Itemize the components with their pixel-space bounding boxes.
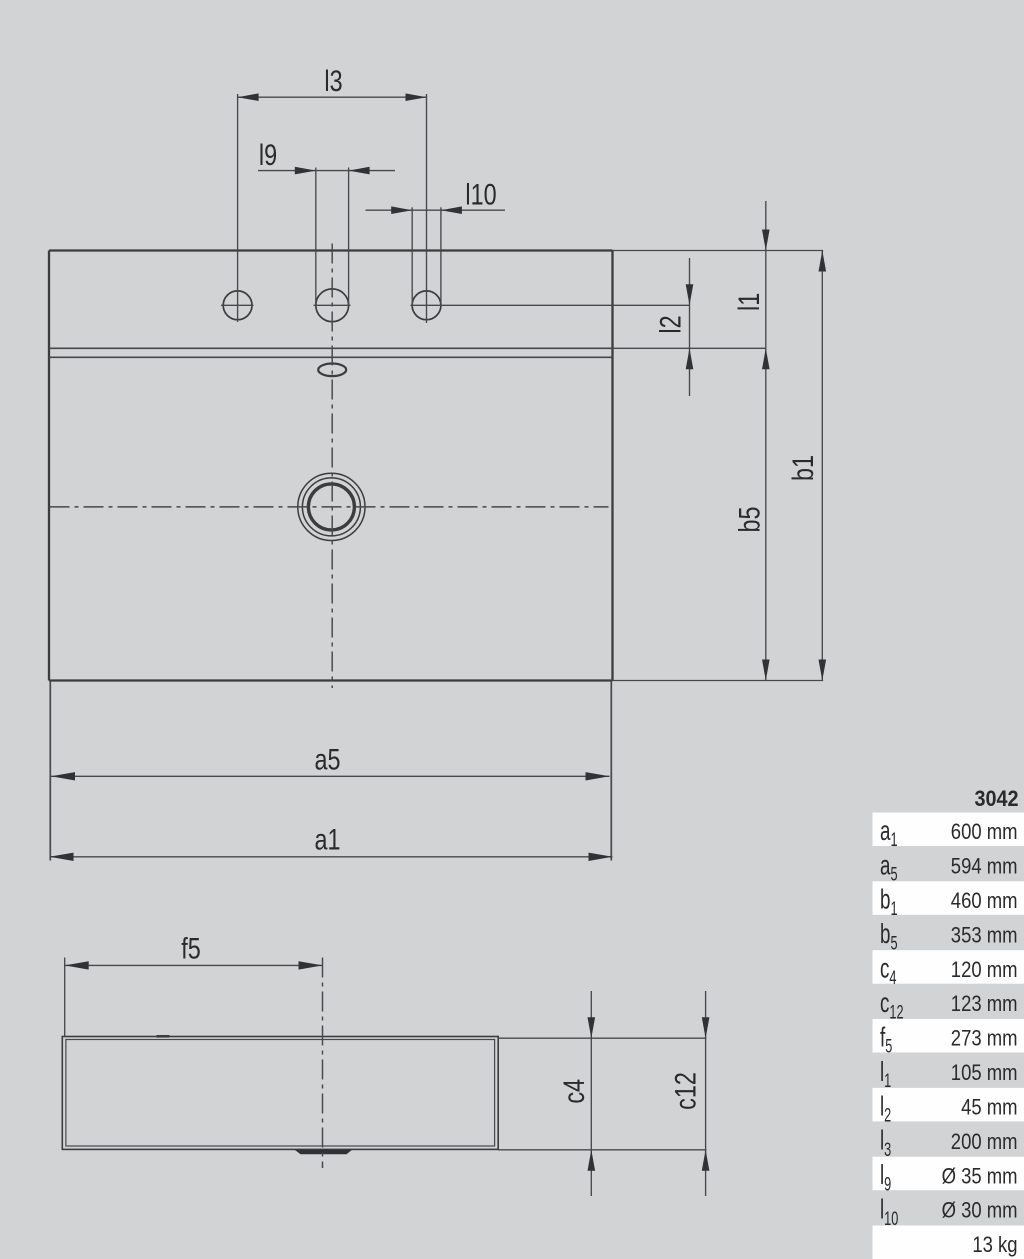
side view inner wall line xyxy=(66,1040,495,1147)
svg-text:c4: c4 xyxy=(557,1079,590,1104)
dimension l9 extension lines xyxy=(316,168,349,306)
overflow mark on side view xyxy=(157,1035,170,1038)
svg-text:123 mm: 123 mm xyxy=(951,993,1018,1017)
svg-text:a5: a5 xyxy=(314,743,340,776)
table row b1 460 mm xyxy=(873,881,1024,919)
side view outer outline xyxy=(62,1037,498,1150)
svg-text:b5: b5 xyxy=(733,506,766,532)
svg-text:b1: b1 xyxy=(786,455,819,481)
svg-text:l9: l9 xyxy=(259,138,277,171)
ledge extension line right xyxy=(613,347,766,349)
svg-text:l1: l1 xyxy=(732,293,765,311)
svg-text:200 mm: 200 mm xyxy=(951,1130,1018,1154)
table row c12 123 mm xyxy=(880,987,1018,1023)
dimension b1 line xyxy=(819,251,827,681)
vertical centerline xyxy=(331,244,333,689)
tap hole left xyxy=(221,291,254,320)
svg-text:273 mm: 273 mm xyxy=(951,1027,1018,1051)
svg-text:120 mm: 120 mm xyxy=(951,958,1018,982)
tap ledge lines xyxy=(49,348,613,357)
drain trap below side view xyxy=(295,1150,353,1155)
svg-text:a1: a1 xyxy=(314,823,340,856)
table row a5 594 mm xyxy=(880,850,1018,886)
table row l10 Ø 30 mm xyxy=(880,1194,1018,1230)
tap hole middle xyxy=(314,289,351,322)
washbasin top view outline xyxy=(49,251,613,681)
svg-text:594 mm: 594 mm xyxy=(951,855,1018,879)
dimension l2 line xyxy=(686,258,694,396)
dimension l9 line xyxy=(258,167,395,175)
svg-text:c12: c12 xyxy=(669,1072,702,1110)
svg-text:460 mm: 460 mm xyxy=(951,889,1018,913)
table row c4 120 mm xyxy=(873,950,1024,988)
dimension a5 line xyxy=(51,772,610,780)
dimension l3 line xyxy=(238,93,427,101)
table row f5 273 mm xyxy=(873,1019,1024,1057)
overflow hole xyxy=(318,364,346,377)
table row l9 Ø 35 mm xyxy=(873,1157,1024,1195)
a dimensions extension lines xyxy=(50,681,611,861)
side view bottom reference line right xyxy=(498,1149,706,1151)
svg-text:f5: f5 xyxy=(181,932,201,965)
table row l3 200 mm xyxy=(880,1125,1018,1161)
svg-text:l2: l2 xyxy=(654,315,687,333)
svg-text:3042: 3042 xyxy=(974,787,1018,811)
dimension f5 line xyxy=(65,961,323,969)
side view top reference line right xyxy=(498,1037,706,1039)
dimension l10 line xyxy=(366,206,506,214)
tap hole right xyxy=(412,291,441,320)
drain outlet circles xyxy=(298,473,365,540)
svg-text:105 mm: 105 mm xyxy=(951,1062,1018,1086)
svg-text:45 mm: 45 mm xyxy=(961,1096,1017,1120)
table row 13 kg xyxy=(873,1226,1024,1259)
bottom edge extension line right xyxy=(613,680,824,682)
dimension l3 extension lines xyxy=(238,94,427,323)
dimension c12 line xyxy=(702,991,710,1196)
dimension c4 line xyxy=(588,991,596,1196)
table row b5 353 mm xyxy=(880,919,1018,955)
svg-text:Ø 30 mm: Ø 30 mm xyxy=(942,1199,1018,1223)
hole centre extension line right xyxy=(411,304,690,306)
table row l1 105 mm xyxy=(880,1056,1018,1092)
svg-text:l10: l10 xyxy=(465,178,496,211)
horizontal centerline xyxy=(50,506,609,508)
svg-text:353 mm: 353 mm xyxy=(951,924,1018,948)
dimension a1 line xyxy=(50,853,613,861)
table row l2 45 mm xyxy=(873,1088,1024,1126)
dimension f5 extension line xyxy=(64,958,66,1037)
table row a1 600 mm xyxy=(873,813,1024,851)
svg-text:600 mm: 600 mm xyxy=(951,821,1018,845)
dimension l10 extension lines xyxy=(412,207,441,305)
svg-text:Ø 35 mm: Ø 35 mm xyxy=(942,1165,1018,1189)
dimension l1 and b5 line xyxy=(762,201,770,681)
side view centerline xyxy=(322,958,324,1169)
svg-text:l3: l3 xyxy=(324,64,342,97)
top edge extension line right xyxy=(613,250,824,252)
svg-text:13 kg: 13 kg xyxy=(972,1234,1017,1258)
